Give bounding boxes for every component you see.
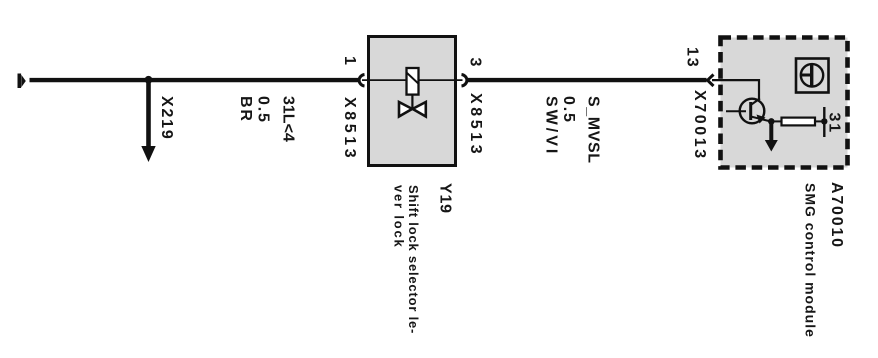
wire: junction to resistor	[771, 120, 782, 122]
connector X70013 pin 13 socket symbol	[708, 75, 714, 87]
node: dot at terminal 31	[821, 118, 827, 124]
svg-text:SW/VI: SW/VI	[543, 96, 560, 156]
svg-text:A70010: A70010	[828, 182, 845, 249]
wire: thin wire from pin 13 into module	[712, 80, 759, 99]
svg-text:31L<4: 31L<4	[280, 96, 297, 142]
svg-text:1: 1	[341, 56, 358, 67]
svg-text:ver lock: ver lock	[391, 185, 406, 249]
node: emitter junction dot	[768, 118, 775, 125]
transistor Q1 output stage	[726, 99, 771, 124]
wire: main horizontal wire from left arrow to connector X8513 pin 1	[30, 78, 360, 82]
ground arrow inside module	[765, 121, 778, 151]
connector X8513 pin 3 socket symbol	[462, 75, 467, 87]
svg-text:3: 3	[467, 58, 484, 69]
svg-text:X8513: X8513	[341, 97, 358, 161]
wire: thin wire through Y19 box	[362, 79, 463, 81]
svg-text:Shift lock selector le-: Shift lock selector le-	[406, 185, 421, 334]
svg-text:Y19: Y19	[436, 183, 453, 214]
wire: X219 branch downward with ground-direction arrow	[141, 80, 155, 162]
component box Y19 shift lock solenoid	[369, 37, 456, 166]
terminal 31 bar	[823, 107, 825, 137]
svg-text:X219: X219	[158, 96, 175, 141]
valve symbol (bowtie) of Y19	[399, 102, 426, 117]
svg-text:SMG control module: SMG control module	[803, 183, 819, 338]
motor/actuator symbol in module	[796, 59, 829, 93]
control module box A70010 (dashed)	[721, 38, 848, 168]
svg-text:0.5: 0.5	[560, 96, 577, 124]
connector X8513 pin 1 socket symbol	[359, 75, 364, 87]
solenoid coil body of Y19 (rectangle with diagonal)	[407, 68, 419, 95]
wire: left continuation arrow terminal	[18, 74, 26, 89]
svg-text:BR: BR	[237, 96, 254, 123]
svg-text:13: 13	[684, 47, 701, 68]
svg-text:S_MVSL: S_MVSL	[585, 96, 602, 164]
svg-text:0.5: 0.5	[255, 96, 272, 124]
svg-text:X8513: X8513	[467, 93, 484, 157]
wire: resistor to terminal 31	[815, 120, 825, 122]
svg-text:31: 31	[826, 113, 843, 134]
wire: link from coil to valve	[411, 95, 413, 109]
resistor R1	[782, 118, 816, 126]
svg-text:X70013: X70013	[691, 90, 708, 161]
wire: thick wire from X8513 pin 3 to X70013 pin 13	[468, 78, 707, 82]
node: junction dot at X219 branch	[145, 76, 153, 84]
